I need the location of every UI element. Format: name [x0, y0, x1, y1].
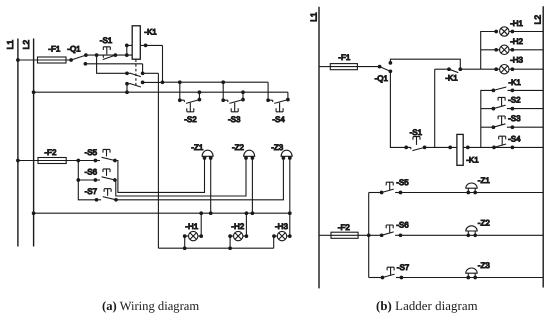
- label -S5 (a): [85, 148, 98, 157]
- fuse F1 (b): [319, 64, 380, 70]
- wire Q1 upper feed: [390, 59, 462, 71]
- wire F2 to S5 branch: [66, 159, 96, 200]
- label -Z2 (b): [478, 219, 491, 228]
- lamp H1 (a): [183, 213, 203, 248]
- svg-text:-Z2: -Z2: [232, 143, 245, 152]
- wire S7 to Z3: [116, 158, 283, 200]
- wire Q1 lower to contact1 right: [85, 64, 142, 74]
- svg-text:-F2: -F2: [338, 223, 351, 232]
- pushbutton S4 (b): [492, 136, 514, 149]
- wire S7 row to L2: [401, 277, 543, 279]
- label -Q1 (a): [67, 45, 81, 54]
- label -H2 (b): [510, 37, 523, 46]
- wire S5 row to L2: [401, 192, 544, 194]
- label L1 (a): [5, 40, 15, 50]
- bus B from L2: [32, 90, 288, 94]
- label -S3 (b): [508, 114, 521, 123]
- label -K1 coil (b): [466, 156, 479, 165]
- label -H3 (a): [275, 222, 288, 231]
- rail L2 (a): [33, 39, 35, 247]
- pushbutton S1 (b): [404, 137, 426, 151]
- svg-text:-S7: -S7: [85, 187, 98, 196]
- pushbutton S3 (a): [221, 82, 245, 112]
- bus A contact2 to S4: [143, 80, 269, 84]
- contactor coil K1 (b): [457, 134, 463, 165]
- label -S1 (a): [100, 36, 113, 45]
- fuse F2 (a): [38, 158, 66, 164]
- mechanical link K1 (dashed): [135, 59, 137, 87]
- svg-text:-S6: -S6: [85, 168, 98, 177]
- label L2 (b): [533, 15, 543, 25]
- pushbutton S5 (a): [94, 149, 117, 162]
- svg-text:-Z1: -Z1: [478, 176, 491, 185]
- buzzer Z2 (a): [244, 150, 255, 160]
- label -H2 (a): [231, 222, 244, 231]
- svg-text:-Z3: -Z3: [478, 261, 491, 270]
- label -Z3 (a): [271, 143, 284, 152]
- wire L1 to F2: [16, 159, 38, 163]
- svg-text:-S1: -S1: [410, 128, 423, 137]
- wire Z3 right leg to H3: [288, 158, 292, 236]
- wire S1 to coil: [425, 146, 457, 150]
- svg-text:(b) Ladder diagram: (b) Ladder diagram: [376, 299, 478, 313]
- label -S4 (b): [508, 134, 521, 143]
- wire S5 to Z1: [115, 158, 205, 192]
- contact K1 aux (b): [435, 67, 459, 72]
- label L1 (b): [308, 12, 318, 22]
- svg-text:-S2: -S2: [184, 115, 197, 124]
- contact K1.2 (a): [125, 81, 144, 93]
- fuse F1 (a): [38, 57, 67, 63]
- label -F1 (a): [48, 45, 61, 54]
- svg-text:-K1: -K1: [508, 78, 521, 87]
- svg-text:-H2: -H2: [231, 222, 244, 231]
- svg-text:-Q1: -Q1: [375, 74, 389, 83]
- label -S2 (a): [184, 115, 197, 124]
- svg-text:-S7: -S7: [397, 263, 410, 272]
- lamp H1 (b): [494, 27, 543, 36]
- label L2 (a): [21, 40, 31, 50]
- pushbutton S5 (b): [369, 182, 403, 194]
- svg-text:-F2: -F2: [44, 148, 57, 157]
- svg-text:-S3: -S3: [508, 114, 521, 123]
- svg-text:-F1: -F1: [338, 53, 351, 62]
- wire F1 to Q1: [66, 59, 71, 61]
- svg-text:-Z3: -Z3: [271, 143, 284, 152]
- svg-text:L1: L1: [308, 12, 318, 22]
- lamp H2 (b): [481, 45, 544, 54]
- wire contact1 to lamp feed: [143, 73, 159, 248]
- pushbutton S4 (a): [266, 82, 290, 112]
- pushbutton S6 (a): [78, 169, 116, 182]
- label -S7 (b): [397, 263, 410, 272]
- svg-text:-H3: -H3: [275, 222, 288, 231]
- label -S6 (a): [85, 168, 98, 177]
- buzzer Z3 (a): [281, 150, 292, 160]
- svg-text:-K1: -K1: [466, 156, 479, 165]
- label -H1 (b): [510, 19, 523, 28]
- svg-text:L2: L2: [533, 15, 543, 25]
- svg-text:-F1: -F1: [48, 45, 61, 54]
- label -S5 (b): [396, 178, 409, 187]
- label -Z3 (b): [478, 261, 491, 270]
- wire S6 to Z2: [115, 158, 246, 196]
- svg-text:(a) Wiring diagram: (a) Wiring diagram: [102, 299, 199, 313]
- branch bus (b): [368, 193, 370, 278]
- svg-text:L2: L2: [21, 40, 31, 50]
- switch Q1 (b): [378, 61, 393, 73]
- svg-text:-S4: -S4: [272, 115, 285, 124]
- label -Z2 (a): [232, 143, 245, 152]
- label -S1 (b): [410, 128, 423, 137]
- pushbutton S1 (a): [103, 47, 116, 60]
- pushbutton S2 (b): [481, 97, 543, 110]
- label -H1 (a): [185, 222, 198, 231]
- wire S1 node down to contact1 left: [97, 55, 127, 73]
- wire coil to hold contact: [140, 44, 164, 85]
- pushbutton S7 (a): [95, 189, 118, 202]
- wire Z2 right leg: [251, 158, 255, 215]
- svg-text:-S4: -S4: [508, 134, 521, 143]
- contact K1.1 (a): [125, 71, 144, 76]
- svg-text:-S2: -S2: [508, 96, 521, 105]
- label -Z1 (a): [191, 143, 204, 152]
- svg-text:-H2: -H2: [510, 37, 523, 46]
- contactor coil K1 (a): [132, 26, 140, 59]
- pushbutton S3 (b): [481, 116, 543, 129]
- contact bus (b): [481, 90, 494, 147]
- rail L2 (b): [542, 6, 544, 287]
- label -S6 (b): [396, 221, 409, 230]
- svg-text:-K1: -K1: [144, 28, 157, 37]
- label -S4 (a): [272, 115, 285, 124]
- wire Q1 to K1 coil: [86, 53, 132, 57]
- buzzer Z1 (b): [466, 183, 477, 194]
- label -K1 coil (a): [144, 28, 157, 37]
- wire K1 aux down to S1 row: [434, 69, 436, 147]
- label -H3 (b): [510, 55, 523, 64]
- label -Z1 (b): [478, 176, 491, 185]
- lamp H3 (b): [481, 65, 544, 74]
- svg-text:-S5: -S5: [396, 178, 409, 187]
- buzzer Z3 (b): [466, 268, 477, 279]
- svg-text:-S1: -S1: [100, 36, 113, 45]
- lamp H2 (a): [228, 213, 248, 248]
- label -S2 (b): [508, 96, 521, 105]
- switch Q1 (a): [69, 53, 88, 65]
- pushbutton S7 (b): [369, 267, 404, 279]
- label -F2 (a): [44, 148, 57, 157]
- pushbutton S6 (b): [380, 225, 403, 237]
- label -K1 contact row (b): [508, 78, 521, 87]
- buzzer Z1 (a): [202, 150, 213, 160]
- svg-text:-Z2: -Z2: [478, 219, 491, 228]
- svg-text:-K1: -K1: [445, 74, 458, 83]
- lamp H3 (a): [272, 231, 292, 248]
- buzzer Z2 (b): [466, 226, 477, 237]
- fuse F2 (b): [319, 232, 382, 238]
- wire S6 row to L2: [401, 234, 544, 236]
- bus C from L2: [32, 211, 290, 215]
- rail L1 (a): [17, 39, 19, 247]
- wire Q1 lower to S1 row: [390, 71, 406, 147]
- bus D lamp return: [158, 246, 273, 250]
- label -Q1 (b): [375, 74, 389, 83]
- svg-text:-H3: -H3: [510, 55, 523, 64]
- label -S3 (a): [228, 115, 241, 124]
- label -K1 aux (b): [445, 74, 458, 83]
- lamp feed bus (b): [460, 32, 496, 70]
- pushbutton S2 (a): [178, 82, 201, 112]
- svg-text:-S6: -S6: [396, 221, 409, 230]
- wire L1 to F1: [16, 58, 37, 62]
- label -S7 (a): [85, 187, 98, 196]
- svg-text:-Z1: -Z1: [191, 143, 204, 152]
- svg-text:-Q1: -Q1: [67, 45, 81, 54]
- wire Z1 right leg: [209, 158, 213, 215]
- svg-text:-H1: -H1: [510, 19, 523, 28]
- svg-text:-S5: -S5: [85, 148, 98, 157]
- rail L1 (b): [318, 7, 320, 289]
- svg-text:-H1: -H1: [185, 222, 198, 231]
- wire coil to L2: [463, 146, 543, 150]
- svg-text:L1: L1: [5, 40, 15, 50]
- label -F1 (b): [338, 53, 351, 62]
- contact K1 row (b): [492, 87, 544, 92]
- svg-text:-S3: -S3: [228, 115, 241, 124]
- label -F2 (b): [338, 223, 351, 232]
- wire node to coil upper: [125, 44, 132, 56]
